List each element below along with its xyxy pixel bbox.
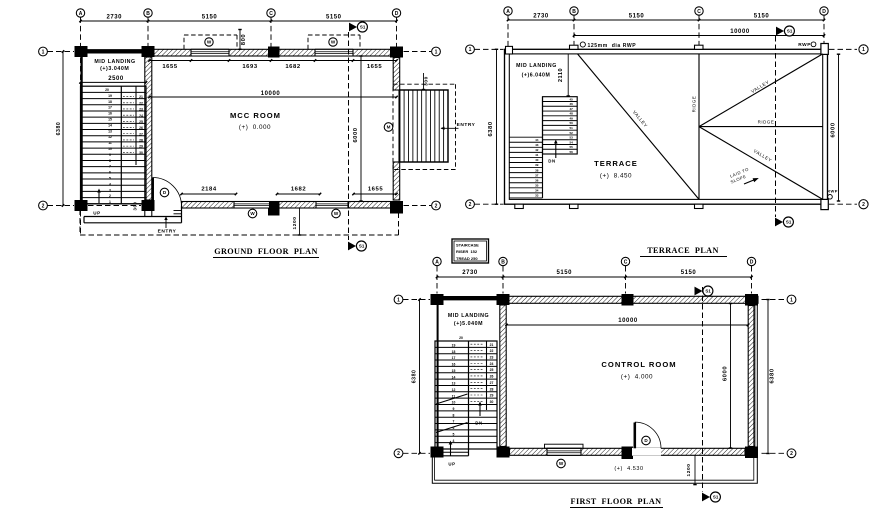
svg-text:1655: 1655: [367, 64, 382, 70]
svg-text:9: 9: [109, 153, 111, 157]
section marker S1 top (first floor): [695, 286, 713, 296]
svg-text:ENTRY: ENTRY: [457, 122, 476, 128]
section marker S1 bottom (first floor): [702, 492, 720, 502]
svg-text:10000: 10000: [730, 29, 750, 35]
svg-text:UP: UP: [93, 211, 100, 216]
svg-text:12: 12: [108, 135, 112, 139]
svg-text:S1: S1: [705, 289, 711, 294]
roof ridge horizontal: [699, 120, 823, 127]
right wall hatched (first floor): [748, 306, 755, 447]
right wall D hatched lower part: [393, 162, 400, 200]
mid landing text (ground floor): [94, 59, 135, 72]
svg-text:47: 47: [570, 107, 574, 111]
right dimension 6380 (first floor): [766, 300, 775, 454]
terrace outline below first floor: [432, 296, 757, 483]
svg-text:1: 1: [109, 200, 111, 204]
svg-text:7: 7: [453, 420, 455, 424]
grid verticals dashed (terrace): [508, 15, 824, 48]
svg-text:RWP: RWP: [798, 42, 811, 48]
svg-text:2730: 2730: [106, 15, 122, 21]
svg-text:1682: 1682: [291, 187, 306, 193]
grid 2 horizontal dashed (terrace): [475, 203, 858, 205]
svg-text:26: 26: [139, 126, 143, 130]
svg-text:(+) 4.530: (+) 4.530: [614, 466, 643, 472]
svg-text:39: 39: [535, 163, 539, 167]
grid circle B (terrace): [570, 7, 578, 15]
svg-text:2500: 2500: [108, 76, 124, 82]
svg-text:A: A: [506, 9, 510, 15]
grid circle 1 right (ground floor): [432, 47, 441, 56]
RWP top left with note 125mm dia RWP: [580, 42, 636, 49]
grid circle 1 right (first floor): [787, 295, 796, 304]
svg-text:B: B: [146, 11, 150, 17]
svg-text:5: 5: [453, 432, 455, 436]
grid 1 horizontal dashed (terrace): [475, 48, 858, 50]
svg-text:8: 8: [453, 413, 455, 417]
grid circle 2 left (first floor): [394, 449, 403, 458]
svg-text:W: W: [250, 211, 255, 216]
svg-text:S1: S1: [713, 495, 719, 500]
svg-text:22: 22: [490, 349, 494, 353]
RWP bottom right: [827, 189, 838, 200]
top dimension line 2730/5150/5150 (terrace): [507, 14, 825, 22]
door D swing arc (first floor): [635, 422, 661, 448]
RIDGE vertical label: [692, 96, 697, 113]
left dimension 6380 (ground floor): [56, 50, 64, 206]
svg-text:12: 12: [452, 388, 456, 392]
window label W circle 4 bottom: [332, 209, 341, 218]
svg-text:41: 41: [535, 153, 539, 157]
stair tread numbers left flight (first floor): [452, 344, 456, 443]
grid circle 2 left (terrace): [466, 200, 475, 209]
staircase treads (ground floor): [81, 86, 147, 204]
svg-text:MID LANDING: MID LANDING: [448, 313, 489, 319]
grid circle C (terrace): [695, 7, 703, 15]
svg-text:10: 10: [452, 401, 456, 405]
dimension 2500 stair width: [79, 76, 147, 84]
mid landing text (first floor): [448, 313, 489, 327]
svg-text:19: 19: [108, 94, 112, 98]
svg-text:22: 22: [139, 101, 143, 105]
svg-text:W: W: [334, 211, 339, 216]
grid circle 2 right (ground floor): [432, 201, 441, 210]
svg-text:(+) 0.000: (+) 0.000: [239, 124, 271, 131]
bottom wall B-D hatched: [182, 202, 397, 209]
svg-text:21: 21: [139, 95, 143, 99]
svg-text:15: 15: [452, 369, 456, 373]
door label D circle (first floor): [642, 436, 651, 445]
svg-text:STAIRCASE: STAIRCASE: [456, 243, 479, 248]
svg-text:25: 25: [490, 368, 494, 372]
svg-text:1: 1: [469, 47, 472, 53]
staircase riser tread note box: [452, 239, 489, 263]
top wall B-D hatched: [148, 49, 397, 56]
svg-text:38: 38: [535, 168, 539, 172]
svg-text:24: 24: [490, 362, 494, 366]
window W2 in top wall: [315, 49, 353, 56]
grid line C vertical dashed: [270, 17, 272, 46]
TERRACE room label: [594, 159, 638, 180]
svg-text:S1: S1: [360, 25, 366, 30]
svg-text:5150: 5150: [326, 15, 342, 21]
section line S1 dashed (first floor): [702, 287, 704, 492]
column D2 (first floor): [745, 447, 758, 459]
svg-text:16: 16: [452, 363, 456, 367]
svg-text:24: 24: [139, 114, 143, 118]
svg-text:19: 19: [452, 344, 456, 348]
svg-text:51: 51: [570, 126, 574, 130]
column B2: [142, 200, 155, 211]
svg-text:5150: 5150: [754, 14, 770, 20]
section marker S1 top (terrace): [776, 26, 794, 36]
svg-text:56: 56: [570, 150, 574, 154]
roof valley lower right: [699, 127, 823, 200]
right wall D hatched upper part: [393, 58, 400, 91]
svg-text:1: 1: [42, 49, 45, 55]
dimension 10000 interior (first floor): [505, 318, 749, 326]
svg-text:800: 800: [241, 34, 247, 46]
svg-text:2: 2: [862, 202, 865, 208]
svg-text:16: 16: [108, 112, 112, 116]
svg-text:(+) 8.450: (+) 8.450: [600, 173, 632, 180]
svg-text:MID LANDING: MID LANDING: [94, 59, 135, 65]
column C1 (first floor): [622, 294, 634, 306]
svg-text:6380: 6380: [770, 368, 776, 383]
svg-text:33: 33: [535, 194, 539, 198]
svg-text:50: 50: [570, 121, 574, 125]
grid circle C (first floor): [621, 257, 629, 265]
svg-text:10: 10: [108, 147, 112, 151]
ENTRY label right side: [441, 122, 476, 130]
dimension 10000 interior: [148, 91, 397, 98]
grid circle 2 left (ground floor): [39, 201, 48, 210]
column D1 (first floor): [745, 294, 758, 306]
section marker S1 top (ground floor): [349, 22, 367, 32]
svg-text:2730: 2730: [462, 270, 478, 276]
svg-text:GROUND FLOOR PLAN: GROUND FLOOR PLAN: [214, 247, 318, 256]
svg-text:B: B: [501, 259, 505, 265]
top dimension line 2730/5150/5150 (first floor): [436, 270, 753, 278]
grid circle B (first floor): [499, 257, 507, 265]
grid circle D (ground floor): [392, 9, 400, 17]
door label M circle: [384, 123, 393, 132]
section line S1 dashed (terrace): [775, 36, 777, 217]
column A2: [75, 200, 88, 211]
ENTRY label bottom: [158, 216, 177, 234]
staircase left edge line: [80, 56, 82, 204]
svg-text:5: 5: [109, 177, 111, 181]
svg-text:D: D: [822, 9, 826, 15]
svg-text:2: 2: [469, 202, 472, 208]
svg-text:TREAD 250: TREAD 250: [456, 256, 478, 261]
entry steps outside: [400, 90, 448, 162]
svg-text:5150: 5150: [629, 14, 645, 20]
svg-text:(+)6.040M: (+)6.040M: [522, 72, 551, 78]
svg-text:27: 27: [139, 132, 143, 136]
svg-text:W: W: [207, 40, 212, 45]
svg-text:A: A: [435, 259, 439, 265]
staircase treads (first floor): [435, 341, 497, 456]
svg-text:40: 40: [535, 158, 539, 162]
column D2: [390, 201, 403, 214]
svg-text:6380: 6380: [411, 370, 417, 384]
top wall A-B thick slab line: [81, 49, 149, 53]
LAID TO SLOPE note: [729, 166, 759, 184]
svg-text:M: M: [387, 125, 391, 130]
grid circle A (terrace): [504, 7, 512, 15]
stair tread numbers right flight (first floor): [471, 343, 494, 404]
svg-text:27: 27: [490, 381, 494, 385]
roof valley diagonal left: [578, 54, 700, 200]
grid line 1 horizontal dashed (ground floor): [48, 51, 432, 53]
svg-text:D: D: [750, 259, 754, 265]
terrace stair treads upper flight: [543, 97, 578, 154]
svg-text:6380: 6380: [56, 122, 62, 136]
svg-text:11: 11: [108, 141, 112, 145]
column B1 (first floor): [497, 294, 510, 305]
svg-text:17: 17: [452, 356, 456, 360]
TERRACE PLAN title: [640, 246, 727, 257]
svg-text:8: 8: [109, 159, 111, 163]
svg-text:300: 300: [133, 202, 138, 211]
dimension 800 canopy projection: [238, 30, 247, 50]
entry door opening threshold line: [398, 90, 400, 162]
stair wall B hatched (first floor): [500, 305, 506, 447]
grid circle 1 left (ground floor): [39, 47, 48, 56]
svg-text:14: 14: [108, 123, 112, 127]
grid circle A (first floor): [433, 257, 441, 265]
svg-text:29: 29: [490, 394, 494, 398]
svg-text:RWP: RWP: [827, 189, 838, 194]
svg-text:13: 13: [452, 382, 456, 386]
svg-text:21: 21: [490, 343, 494, 347]
svg-text:1: 1: [397, 297, 400, 303]
svg-text:6380: 6380: [488, 121, 494, 136]
svg-text:FIRST FLOOR PLAN: FIRST FLOOR PLAN: [571, 497, 662, 506]
svg-text:1: 1: [435, 49, 438, 55]
top wall A-B thick slab line (first floor): [437, 296, 503, 300]
svg-text:6: 6: [109, 171, 111, 175]
svg-text:45: 45: [570, 97, 574, 101]
svg-text:D: D: [395, 11, 399, 17]
svg-text:46: 46: [570, 102, 574, 106]
terrace stair tread numbers lower flight: [535, 138, 539, 198]
svg-text:17: 17: [108, 106, 112, 110]
top window spacing dimension row 1655/1693/1682/1655: [148, 59, 397, 70]
svg-text:53: 53: [570, 136, 574, 140]
grid circle 1 right (terrace): [859, 45, 868, 54]
svg-text:2: 2: [42, 203, 45, 209]
window label W circle 2 top: [329, 38, 337, 46]
grid 2 horizontal dashed (first floor): [403, 452, 787, 454]
svg-text:(+)3.040M: (+)3.040M: [100, 66, 129, 72]
svg-text:2: 2: [397, 451, 400, 457]
grid line A vertical dashed: [80, 17, 82, 234]
svg-text:18: 18: [108, 100, 112, 104]
svg-text:6000: 6000: [830, 122, 836, 137]
svg-text:54: 54: [570, 140, 574, 144]
svg-text:A: A: [79, 11, 83, 17]
svg-text:W: W: [331, 40, 336, 45]
staircase left edge (first floor): [437, 300, 439, 449]
column C1: [268, 47, 280, 58]
door label D circle (ground floor): [160, 188, 169, 197]
RWP top right: [798, 42, 816, 48]
svg-text:9: 9: [453, 407, 455, 411]
grid circle 1 left (first floor): [394, 295, 403, 304]
column C2: [268, 201, 280, 216]
grid line 2 horizontal dashed (ground floor): [48, 205, 432, 207]
window canopy dashed box 1 (top): [184, 35, 237, 49]
svg-text:5150: 5150: [681, 270, 697, 276]
terrace stair tread numbers upper flight: [570, 97, 574, 154]
grid verticals dashed (first floor): [437, 266, 752, 294]
svg-text:2110: 2110: [558, 68, 564, 82]
svg-text:TERRACE PLAN: TERRACE PLAN: [647, 246, 719, 255]
svg-text:23: 23: [490, 356, 494, 360]
svg-text:6000: 6000: [722, 366, 728, 381]
svg-text:S1: S1: [359, 244, 365, 249]
window W bottom (first floor): [547, 448, 581, 455]
svg-text:18: 18: [452, 350, 456, 354]
svg-text:B: B: [572, 9, 576, 15]
svg-text:C: C: [624, 259, 628, 265]
svg-text:TERRACE: TERRACE: [594, 159, 638, 168]
stair up arrow (ground floor): [93, 189, 101, 216]
door D ground floor swing arc: [153, 178, 182, 207]
svg-text:ENTRY: ENTRY: [158, 229, 177, 235]
svg-text:1655: 1655: [368, 187, 383, 193]
svg-text:43: 43: [535, 143, 539, 147]
parapet pilaster tabs: [506, 44, 829, 210]
grid circle B (ground floor): [144, 9, 152, 17]
svg-text:RIDGE: RIDGE: [758, 120, 775, 125]
svg-text:(+)5.040M: (+)5.040M: [454, 321, 483, 327]
svg-text:28: 28: [490, 387, 494, 391]
bottom wall hatched (first floor): [510, 444, 746, 455]
grid circle 2 right (first floor): [787, 449, 796, 458]
svg-text:49: 49: [570, 116, 574, 120]
svg-text:42: 42: [535, 148, 539, 152]
column B1: [142, 46, 155, 57]
roof valley upper right: [699, 54, 823, 127]
right dimension 6000 (terrace): [830, 54, 840, 201]
door steps at entry: [174, 206, 182, 223]
svg-text:125mm dia RWP: 125mm dia RWP: [588, 43, 637, 49]
column A2 (first floor): [431, 447, 444, 458]
svg-text:5150: 5150: [556, 270, 572, 276]
svg-text:44: 44: [535, 138, 539, 142]
svg-text:36: 36: [535, 178, 539, 182]
left dimension 6380 (first floor): [411, 298, 420, 454]
svg-text:2184: 2184: [201, 187, 216, 193]
terrace parapet outer wall: [505, 49, 828, 204]
svg-text:20: 20: [105, 88, 109, 92]
svg-text:2: 2: [435, 203, 438, 209]
svg-text:1693: 1693: [242, 64, 257, 70]
svg-text:30: 30: [139, 151, 143, 155]
dimension 300 entry step: [422, 73, 430, 90]
column B2 (first floor): [497, 447, 510, 458]
svg-text:55: 55: [570, 145, 574, 149]
svg-text:4: 4: [109, 182, 111, 186]
svg-text:C: C: [269, 11, 273, 17]
terrace stair treads lower flight: [509, 97, 542, 198]
GROUND FLOOR PLAN title: [213, 247, 319, 258]
dimension 300 door side: [133, 202, 138, 211]
grid 1 horizontal dashed (first floor): [403, 299, 787, 301]
window canopy dashed box 2 (top): [308, 35, 360, 49]
door D ground floor leaf: [151, 178, 154, 207]
window label W circle 3 bottom: [248, 209, 257, 218]
stair UP arrow (first floor): [448, 441, 455, 467]
svg-text:37: 37: [535, 173, 539, 177]
svg-text:S1: S1: [786, 220, 792, 225]
window W3 in bottom wall: [234, 202, 270, 209]
dimension 1200 (first floor): [686, 455, 697, 484]
section marker S1 bottom (ground floor): [348, 241, 366, 251]
svg-text:5150: 5150: [202, 15, 218, 21]
section marker S1 bottom (terrace): [775, 217, 793, 227]
column A1: [75, 46, 88, 57]
roof ridge vertical line at C: [698, 54, 700, 200]
CONTROL ROOM label: [601, 360, 676, 381]
svg-text:29: 29: [139, 145, 143, 149]
svg-text:26: 26: [490, 375, 494, 379]
svg-text:DN: DN: [548, 159, 555, 164]
svg-text:1655: 1655: [162, 64, 177, 70]
svg-text:1: 1: [862, 47, 865, 53]
svg-text:W: W: [559, 461, 564, 466]
svg-text:14: 14: [452, 375, 456, 379]
window sill projection (first floor): [545, 444, 584, 448]
svg-text:CONTROL ROOM: CONTROL ROOM: [601, 360, 676, 369]
grid line B vertical dashed: [147, 17, 149, 46]
terrace stair DN arrow: [548, 140, 557, 164]
svg-text:2: 2: [109, 194, 111, 198]
svg-text:15: 15: [108, 118, 112, 122]
MCC ROOM label: [230, 111, 281, 131]
top dimension line 2730/5150/5150 (ground floor): [79, 15, 397, 23]
svg-text:28: 28: [139, 139, 143, 143]
column C2 (first floor): [622, 447, 634, 460]
svg-text:MID LANDING: MID LANDING: [516, 63, 557, 69]
stair DN arrow (first floor): [475, 402, 482, 426]
grid circle 2 right (terrace): [859, 200, 868, 209]
level label 4.530: [614, 466, 643, 472]
dimension 1200 below bottom wall: [292, 208, 301, 235]
svg-text:1200: 1200: [686, 464, 692, 477]
svg-text:4: 4: [453, 439, 455, 443]
svg-text:25: 25: [139, 120, 143, 124]
dimension 10000 (terrace): [573, 29, 825, 37]
grid circle D (terrace): [820, 7, 828, 15]
svg-text:23: 23: [139, 108, 143, 112]
stair tread numbers left flight 20-1: [105, 88, 112, 204]
stair wall B hatched (ground floor): [145, 57, 152, 200]
grid circle A (ground floor): [76, 9, 84, 17]
roof overhang dashed outline (ground floor): [80, 210, 399, 236]
window label W circle (first floor): [557, 459, 566, 468]
svg-text:MCC ROOM: MCC ROOM: [230, 111, 281, 120]
svg-text:(+) 4.000: (+) 4.000: [621, 374, 653, 381]
column D1: [390, 47, 403, 58]
dimension 6000 interior vertical: [353, 56, 363, 201]
column A1 (first floor): [431, 294, 444, 305]
window W1 in top wall: [191, 49, 229, 56]
svg-text:34: 34: [535, 189, 539, 193]
grid circle C (ground floor): [267, 9, 275, 17]
